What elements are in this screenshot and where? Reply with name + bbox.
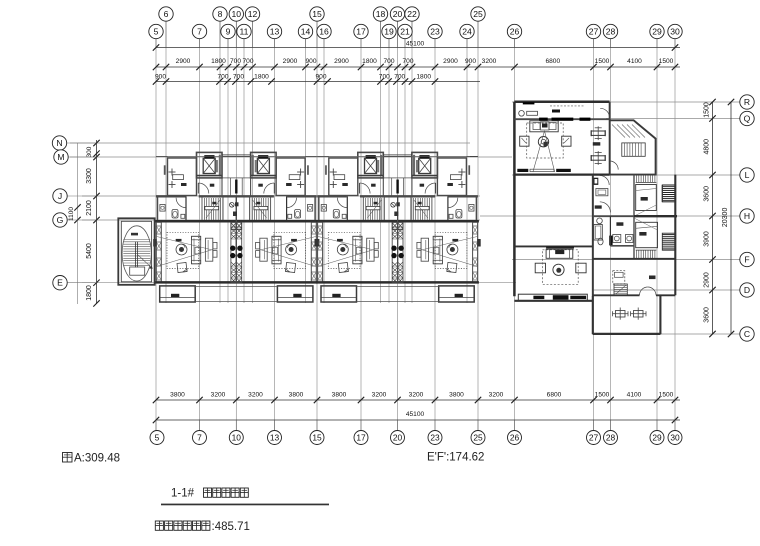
unit recess jamb xyxy=(325,165,327,175)
svg-text:28: 28 xyxy=(606,27,616,37)
bottom dimension line tier 1 xyxy=(156,399,680,401)
svg-text:25: 25 xyxy=(473,433,483,443)
svg-text:700: 700 xyxy=(383,58,394,65)
svg-text:30: 30 xyxy=(670,433,680,443)
unit wall grid J xyxy=(156,195,186,197)
unit recess jamb xyxy=(307,165,309,175)
unit wall grid E xyxy=(316,281,397,284)
unit bed xyxy=(171,169,173,176)
unit chair xyxy=(447,263,457,273)
left secondary dim line 1100 xyxy=(77,143,79,304)
svg-text:27: 27 xyxy=(589,27,599,37)
svg-text:2900: 2900 xyxy=(704,272,711,288)
right block east wall xyxy=(674,175,676,296)
svg-text:1500: 1500 xyxy=(704,102,711,118)
vertical grid lines xyxy=(155,48,157,421)
grid bubble F right xyxy=(740,252,754,266)
svg-text:G: G xyxy=(57,215,64,225)
unit bathroom xyxy=(157,196,159,220)
unit bed xyxy=(332,169,334,176)
svg-text:26: 26 xyxy=(510,27,520,37)
svg-text:E: E xyxy=(57,278,63,288)
right block protrusion desks xyxy=(616,311,626,318)
lobby symbol pair at 232 xyxy=(230,203,235,208)
svg-text:1800: 1800 xyxy=(254,73,269,80)
svg-text:3800: 3800 xyxy=(170,392,185,399)
grid bubble 8 top xyxy=(213,7,227,21)
grid bubble 25 top xyxy=(471,7,485,21)
svg-text:20300: 20300 xyxy=(722,208,729,228)
svg-text:3200: 3200 xyxy=(482,58,497,65)
right block small stair low xyxy=(614,284,627,296)
svg-text:45100: 45100 xyxy=(406,411,425,418)
right block east stair lower xyxy=(662,233,675,250)
grid bubble 17 top xyxy=(354,24,368,38)
svg-text:3800: 3800 xyxy=(332,392,347,399)
left block unit 4 (mirrored) xyxy=(398,152,481,302)
left dimension line xyxy=(96,140,98,304)
grid bubble C right xyxy=(740,327,754,341)
svg-text:20: 20 xyxy=(393,433,403,443)
svg-text:6: 6 xyxy=(164,9,169,19)
unit bed xyxy=(461,169,463,176)
unit living rug xyxy=(435,232,467,268)
svg-text:F: F xyxy=(744,255,749,265)
unit living west window strip xyxy=(318,222,323,282)
left block unit 2 (mirrored) xyxy=(236,152,319,302)
unit wall grid G xyxy=(316,220,397,223)
left block facade top line xyxy=(156,155,470,157)
right dimension line tier 1 xyxy=(712,102,714,334)
svg-text:14: 14 xyxy=(301,27,311,37)
svg-text:3800: 3800 xyxy=(449,392,464,399)
unit recess jamb xyxy=(468,165,470,175)
unit sofa xyxy=(272,236,281,263)
svg-text:3200: 3200 xyxy=(248,392,263,399)
unit stair xyxy=(250,196,271,220)
svg-text:3600: 3600 xyxy=(704,307,711,323)
unit living rug xyxy=(167,232,199,268)
svg-text:700: 700 xyxy=(230,58,241,65)
unit balcony xyxy=(439,286,475,302)
svg-text:Q: Q xyxy=(744,114,751,124)
svg-text:3200: 3200 xyxy=(489,392,504,399)
unit bathroom xyxy=(318,196,320,220)
grid bubble 26 top xyxy=(507,24,521,38)
svg-text:23: 23 xyxy=(430,433,440,443)
right block living room (SW) xyxy=(514,245,592,247)
grid bubble 25 bottom xyxy=(471,431,485,445)
unit sofa xyxy=(353,236,362,263)
svg-text:15: 15 xyxy=(312,433,322,443)
svg-text:M: M xyxy=(57,152,64,162)
svg-text:6800: 6800 xyxy=(547,392,562,399)
grid bubble J left xyxy=(67,195,96,197)
svg-text:16: 16 xyxy=(319,27,329,37)
horizontal grid lines left letters xyxy=(70,142,470,144)
unit entry hall door xyxy=(425,183,436,194)
unit ceiling fan xyxy=(447,244,458,255)
svg-text:2900: 2900 xyxy=(334,58,349,65)
unit living sight lines xyxy=(421,237,477,251)
svg-text:27: 27 xyxy=(589,433,599,443)
unit party wall xyxy=(235,196,237,282)
unit chair xyxy=(177,263,187,273)
unit bathroom xyxy=(475,196,477,220)
unit living west window strip xyxy=(156,222,161,282)
svg-text:A:309.48: A:309.48 xyxy=(74,453,120,465)
svg-text:29: 29 xyxy=(652,433,662,443)
svg-text:23: 23 xyxy=(430,27,440,37)
unit tv cabinet xyxy=(205,238,212,261)
right block wall F-level xyxy=(593,258,676,260)
unit party wall xyxy=(397,196,399,282)
grid bubble N left xyxy=(67,142,97,144)
grid bubble 7 bottom xyxy=(193,431,207,445)
unit center shaft xyxy=(231,222,236,282)
unit living sight lines xyxy=(318,237,374,251)
unit balcony xyxy=(321,286,357,302)
grid bubble 16 top xyxy=(317,24,331,38)
bottom bubble stems xyxy=(155,420,157,430)
unit wall grid G xyxy=(398,220,479,223)
svg-text:1800: 1800 xyxy=(416,73,431,80)
right block top room outer walls xyxy=(514,101,609,104)
stair tower rails xyxy=(135,242,137,268)
unit bed xyxy=(300,169,302,176)
unit party wall xyxy=(235,196,237,282)
stair tower arrow xyxy=(138,255,152,268)
svg-text:700: 700 xyxy=(242,58,253,65)
right block stair hall wall xyxy=(633,175,635,259)
svg-text:3600: 3600 xyxy=(704,186,711,202)
unit corridor walls xyxy=(221,152,223,196)
svg-text:900: 900 xyxy=(315,73,326,80)
unit living rug xyxy=(274,232,306,268)
grid bubble 24 top xyxy=(460,24,474,38)
svg-text:2900: 2900 xyxy=(283,58,298,65)
svg-text:18: 18 xyxy=(376,9,386,19)
svg-text:17: 17 xyxy=(356,433,366,443)
unit chair xyxy=(286,263,296,273)
right block closet top xyxy=(594,178,599,185)
right block round table xyxy=(538,137,548,147)
grid bubble 13 top xyxy=(267,24,281,38)
svg-text:700: 700 xyxy=(402,58,413,65)
grid bubble 22 top xyxy=(405,7,419,21)
top overall dimension line 45100 xyxy=(156,47,680,49)
unit bathroom xyxy=(314,196,316,220)
svg-text:7: 7 xyxy=(197,27,202,37)
svg-text:3900: 3900 xyxy=(704,231,711,247)
grid bubble 28 bottom xyxy=(604,431,618,445)
svg-text:5: 5 xyxy=(154,27,159,37)
grid bubble E left xyxy=(67,282,96,284)
unit wall grid G xyxy=(155,220,236,223)
grid bubble 17 bottom xyxy=(354,431,368,445)
svg-text:2100: 2100 xyxy=(86,200,93,216)
grid bubble 20 top xyxy=(390,7,404,21)
right block bottom corridor treads xyxy=(637,250,655,259)
unit entry hall door xyxy=(264,183,275,194)
unit living west window strip xyxy=(473,222,478,282)
unit stair xyxy=(363,196,384,220)
svg-text:1800: 1800 xyxy=(86,285,93,301)
unit terrace edge xyxy=(195,286,236,288)
grid bubble 19 top xyxy=(382,24,396,38)
grid bubble 14 top xyxy=(298,24,312,38)
right block living south window xyxy=(518,294,587,300)
unit chair xyxy=(338,263,348,273)
svg-text:30: 30 xyxy=(670,27,680,37)
grid bubble 9 top xyxy=(221,24,235,38)
grid bubble 30 top xyxy=(668,24,682,38)
left block unit 1 xyxy=(153,152,236,302)
right block rug xyxy=(527,123,564,158)
unit terrace edge xyxy=(398,286,439,288)
unit sofa xyxy=(192,236,201,263)
lobby symbol pair at 393 xyxy=(391,203,396,208)
grid bubble 7 top xyxy=(192,24,206,38)
unit living sight lines xyxy=(260,237,316,251)
grid bubble 30 bottom xyxy=(668,431,682,445)
svg-text:300: 300 xyxy=(86,146,93,157)
right block bedroom 2 bed xyxy=(636,222,658,247)
svg-text:6800: 6800 xyxy=(545,58,560,65)
unit terrace edge xyxy=(357,286,398,288)
grid bubble 5 top xyxy=(149,24,163,38)
grid bubble H right xyxy=(740,209,754,223)
svg-text:3200: 3200 xyxy=(211,392,226,399)
unit balcony xyxy=(160,286,196,302)
unit wall grid E xyxy=(236,281,317,284)
unit wall grid J xyxy=(448,195,478,197)
unit bedroom walls xyxy=(156,156,168,158)
svg-text:45100: 45100 xyxy=(406,40,425,47)
grid bubble 12 top xyxy=(245,7,259,21)
unit corridor walls xyxy=(382,152,384,196)
unit center shaft xyxy=(392,222,397,282)
grid bubble R right xyxy=(740,95,754,109)
unit ceiling fan xyxy=(176,244,187,255)
top first tier dimension line xyxy=(156,66,680,68)
unit sofa xyxy=(433,236,442,263)
svg-text:1-1#: 1-1# xyxy=(171,488,195,500)
svg-text:13: 13 xyxy=(270,27,280,37)
right block east stair upper xyxy=(662,185,675,202)
unit bedroom walls xyxy=(305,156,317,158)
svg-text:900: 900 xyxy=(305,58,316,65)
svg-text:20: 20 xyxy=(393,9,403,19)
svg-text:700: 700 xyxy=(394,73,405,80)
bottom area text xyxy=(155,521,163,530)
svg-text:2900: 2900 xyxy=(176,58,191,65)
grid bubble 18 top xyxy=(373,7,387,21)
unit terrace edge xyxy=(236,286,277,288)
grid bubble 29 top xyxy=(650,24,664,38)
right block armchairs xyxy=(520,136,529,146)
stair tower treads xyxy=(123,240,150,266)
bottom overall dimension line 45100 xyxy=(156,419,680,421)
svg-text::485.71: :485.71 xyxy=(212,521,250,533)
svg-text:H: H xyxy=(744,211,750,221)
right block bedroom 1 bed xyxy=(636,185,657,211)
unit bedroom walls xyxy=(317,156,329,158)
grid bubble 10 bottom xyxy=(229,431,243,445)
svg-text:5: 5 xyxy=(155,433,160,443)
svg-text:3300: 3300 xyxy=(86,168,93,184)
svg-text:3200: 3200 xyxy=(409,392,424,399)
svg-text:1500: 1500 xyxy=(659,392,674,399)
svg-text:5400: 5400 xyxy=(86,243,93,259)
right block washer room xyxy=(613,235,621,243)
grid bubble 26 bottom xyxy=(508,431,522,445)
unit elevator shaft xyxy=(412,152,438,178)
svg-text:N: N xyxy=(56,138,62,148)
svg-text:3800: 3800 xyxy=(289,392,304,399)
unit party wall xyxy=(397,196,399,282)
unit elevator shaft xyxy=(197,152,223,178)
svg-text:10: 10 xyxy=(232,433,242,443)
right block south double door xyxy=(593,294,640,296)
unit balcony xyxy=(277,286,313,302)
svg-text:8: 8 xyxy=(218,9,223,19)
svg-text:700: 700 xyxy=(233,73,244,80)
svg-text:700: 700 xyxy=(379,73,390,80)
svg-text:15: 15 xyxy=(312,9,322,19)
svg-text:J: J xyxy=(58,191,62,201)
unit stair xyxy=(411,196,432,220)
svg-text:1100: 1100 xyxy=(68,207,75,221)
left block unit 3 xyxy=(315,152,398,302)
right block annex stair xyxy=(622,143,645,156)
unit entry hall door xyxy=(198,183,209,194)
svg-text:900: 900 xyxy=(155,73,166,80)
svg-text:D: D xyxy=(744,285,750,295)
stair tower outer walls xyxy=(118,218,154,284)
right block middle terrace walls xyxy=(592,175,594,297)
grid bubble 27 top xyxy=(586,24,600,38)
grid bubble 28 top xyxy=(603,24,617,38)
unit bedroom walls xyxy=(466,156,478,158)
unit wall grid J xyxy=(317,195,347,197)
unit center shaft xyxy=(236,222,241,282)
unit center shaft xyxy=(398,222,403,282)
unit elevator shaft xyxy=(251,152,277,178)
grid bubble 29 bottom xyxy=(650,431,664,445)
svg-text:700: 700 xyxy=(217,73,228,80)
unit recess jamb xyxy=(164,165,166,175)
svg-text:3200: 3200 xyxy=(372,392,387,399)
grid bubble 21 top xyxy=(398,24,412,38)
title underline xyxy=(161,504,329,506)
right block sight lines xyxy=(533,131,545,172)
unit wall grid E xyxy=(155,281,236,284)
right block bathroom xyxy=(597,218,603,224)
svg-text:26: 26 xyxy=(510,433,520,443)
grid bubble 10 top xyxy=(229,7,243,21)
svg-text:E'F':174.62: E'F':174.62 xyxy=(427,452,484,464)
unit living rug xyxy=(328,232,360,268)
grid bubble 13 bottom xyxy=(268,431,282,445)
grid bubble 15 bottom xyxy=(310,431,324,445)
unit living sight lines xyxy=(157,237,213,251)
unit tv cabinet xyxy=(367,238,374,261)
svg-text:L: L xyxy=(745,170,750,180)
grid bubble 5 bottom xyxy=(150,431,164,445)
unit corridor walls xyxy=(411,152,413,196)
right block annex door xyxy=(610,161,619,170)
right overall dimension line 20300 xyxy=(730,102,732,334)
svg-text:29: 29 xyxy=(652,27,662,37)
svg-text:19: 19 xyxy=(384,27,394,37)
grid bubble 27 bottom xyxy=(587,431,601,445)
svg-text:1800: 1800 xyxy=(362,58,377,65)
svg-text:4800: 4800 xyxy=(704,139,711,155)
svg-text:1800: 1800 xyxy=(211,58,226,65)
grid bubble 23 bottom xyxy=(428,431,442,445)
svg-text:1500: 1500 xyxy=(595,392,610,399)
grid bubble 15 top xyxy=(310,7,324,21)
svg-text:2900: 2900 xyxy=(443,58,458,65)
svg-text:17: 17 xyxy=(356,27,366,37)
grid bubble 6 top xyxy=(159,7,173,21)
svg-text:12: 12 xyxy=(248,9,258,19)
svg-text:13: 13 xyxy=(270,433,280,443)
svg-text:4100: 4100 xyxy=(627,58,642,65)
svg-text:24: 24 xyxy=(462,27,472,37)
svg-text:C: C xyxy=(744,329,750,339)
right block annex walls xyxy=(610,120,656,174)
svg-text:7: 7 xyxy=(197,433,202,443)
unit ceiling fan xyxy=(286,244,297,255)
right block south protrusion walls xyxy=(592,296,594,334)
svg-text:R: R xyxy=(744,97,750,107)
svg-text:25: 25 xyxy=(473,9,483,19)
unit elevator shaft xyxy=(358,152,384,178)
right block annex hatch xyxy=(612,125,645,138)
svg-text:11: 11 xyxy=(240,27,249,37)
right block lower bedroom xyxy=(613,271,625,284)
unit ceiling fan xyxy=(337,244,348,255)
grid bubble Q right xyxy=(740,111,754,125)
svg-text:1500: 1500 xyxy=(595,58,610,65)
text A:309.48 xyxy=(63,453,73,463)
grid bubble 23 top xyxy=(428,24,442,38)
grid bubble D right xyxy=(740,283,754,297)
svg-text:900: 900 xyxy=(465,58,476,65)
right block top corridor treads xyxy=(637,175,655,182)
svg-text:22: 22 xyxy=(407,9,417,19)
svg-text:4100: 4100 xyxy=(627,392,642,399)
unit corridor walls xyxy=(250,152,252,196)
unit living west window strip xyxy=(311,222,316,282)
grid bubble 11 top xyxy=(237,24,251,38)
right block wall H east xyxy=(634,215,677,217)
unit entry hall door xyxy=(360,183,371,194)
svg-text:28: 28 xyxy=(606,433,616,443)
stair tower oval xyxy=(122,226,151,281)
top bubble stems xyxy=(165,21,167,47)
right block tv wall xyxy=(517,169,528,172)
svg-text:1500: 1500 xyxy=(659,58,674,65)
grid bubble M left xyxy=(68,156,96,158)
right block top room sofa group xyxy=(530,121,558,132)
unit tv cabinet xyxy=(260,238,267,261)
svg-text:10: 10 xyxy=(232,9,242,19)
horizontal grid lines right letters xyxy=(512,101,740,103)
top second tier dimension line xyxy=(156,81,480,83)
